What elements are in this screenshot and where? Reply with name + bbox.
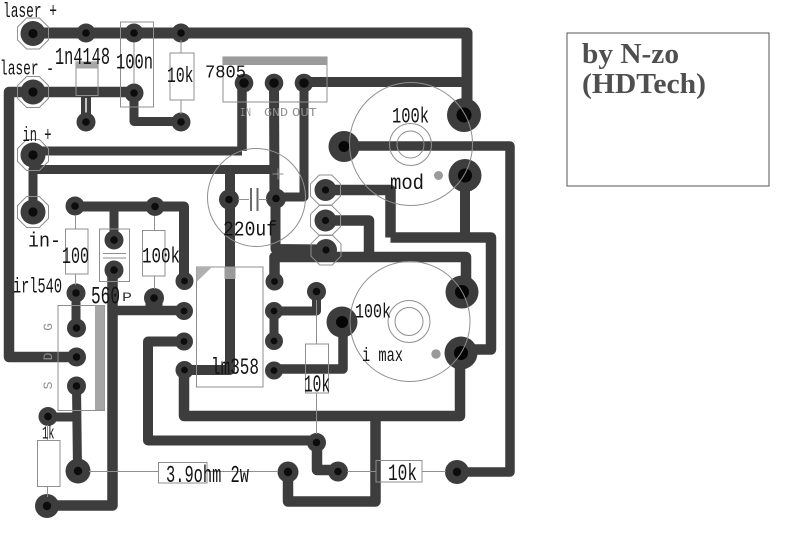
resistor 10kB body outline: [376, 461, 422, 483]
resistor 1k leads: [47, 425, 49, 441]
svg-text:100k: 100k: [392, 105, 429, 130]
pad 10k top: [172, 24, 191, 43]
resistor 3.9ohm body outline: [159, 463, 208, 484]
pad lm358 pin1L: [176, 272, 194, 290]
pad R100k top: [146, 197, 165, 216]
pad lm358 pin1R: [266, 273, 284, 291]
octagon laser+: [18, 18, 49, 49]
wire 7805 IN down to in+ line: [237, 83, 247, 151]
potentiometer mod circle outline: [350, 83, 473, 206]
pad R100 bottom: [67, 284, 86, 303]
pad 7805 OUT: [295, 74, 314, 93]
pad laser+: [21, 21, 46, 46]
resistor 100 leads: [75, 215, 77, 229]
resistor 3.9ohm leads: [89, 471, 159, 473]
wire 10kA bottom pad to left 10kB pad: [317, 442, 338, 470]
svg-text:100n: 100n: [116, 51, 153, 76]
regulator 7805 tab bar: [223, 57, 327, 65]
pad 1k bottom: [35, 494, 59, 518]
transistor irl540 tab bar: [95, 306, 105, 411]
pad 10kA top: [307, 282, 326, 301]
pad laser-: [21, 80, 46, 105]
capacitor 560p symbol lines: [103, 253, 126, 255]
svg-text:560: 560: [91, 283, 120, 312]
svg-text:100k: 100k: [355, 302, 391, 325]
svg-text:S: S: [41, 381, 56, 389]
pad 10kB left: [328, 462, 348, 482]
wire connector pin2 staircase down: [325, 221, 369, 258]
svg-text:10k: 10k: [167, 64, 194, 89]
svg-text:P: P: [122, 290, 132, 305]
svg-text:IN: IN: [240, 106, 251, 120]
op-amp lm358 notch overlay on trace: [225, 267, 236, 279]
svg-text:by N-zo: by N-zo: [582, 39, 679, 70]
pad imax pot wiper: [327, 307, 358, 338]
pad R100k bottom: [144, 288, 164, 308]
capacitor 220uf plate symbol: [250, 188, 259, 211]
wire branch to lm358 pin2L: [113, 306, 185, 316]
pad 220uf positive: [266, 189, 286, 209]
pad connector pin3: [315, 239, 337, 261]
svg-text:irl540: irl540: [13, 277, 62, 300]
wire lm358 pin3L left down right to 10kA bottom pad: [148, 342, 317, 441]
pad lm358 pin4L: [176, 361, 194, 379]
pad lm358 pin3R: [265, 332, 283, 350]
pad 560p bottom: [105, 261, 124, 280]
wire top +5V rail from laser+ to mod pot top-right pad: [33, 33, 467, 115]
author box: [567, 33, 769, 186]
wire R100 bottom pad to irl540 G pin: [72, 293, 81, 328]
wire 560p top pad stub: [110, 207, 119, 241]
octagon connector pin2: [311, 206, 341, 236]
wire y236 line right and down to imax bottom-right pad: [391, 238, 492, 350]
wire 7805 GND down to 220uf right pad: [269, 83, 280, 198]
svg-text:1n4148: 1n4148: [55, 45, 110, 72]
wire 7805 OUT down and left to 220uf right pad: [277, 83, 304, 197]
svg-text:1k: 1k: [42, 424, 55, 445]
pad connector pin2: [315, 210, 337, 232]
pad mod pot bottom-right: [449, 159, 482, 192]
wire node row y206: R100 top to R100k top to lm358 pin1L: [75, 207, 184, 282]
pad 100n bottom: [125, 84, 144, 103]
capacitor 220uf circle outline: [208, 149, 306, 247]
resistor 100k leads: [154, 216, 156, 231]
svg-text:OUT: OUT: [292, 106, 317, 120]
svg-text:(HDTech): (HDTech): [582, 69, 706, 100]
svg-text:lm358: lm358: [211, 355, 259, 381]
resistor 1k body outline: [38, 441, 61, 487]
pad R100 top: [66, 197, 85, 216]
svg-text:100k: 100k: [142, 245, 180, 270]
pad lm358 pin2L: [175, 302, 193, 320]
wire irl540 S pin down to pad near 3.9ohm: [77, 386, 78, 470]
capacitor 100n lead line: [133, 42, 135, 84]
wire 1k bottom pad right and up to 560p bottom / lm358 pin2L: [47, 271, 113, 506]
svg-text:3.9ohm 2w: 3.9ohm 2w: [166, 463, 249, 490]
resistor 10k top leads: [180, 40, 182, 53]
wire mod pot bottom-right pad down to y236 line: [460, 175, 470, 238]
capacitor 220uf plus mark: [273, 173, 284, 175]
pad 100n top: [125, 24, 144, 43]
potentiometer imax inner rings: [388, 301, 430, 343]
potentiometer mod inner rings: [390, 124, 432, 166]
wire bottom loop from 3.9ohm right pad up to y414 line: [288, 416, 376, 502]
pad imax pot top-right: [446, 276, 479, 309]
capacitor 100n body outline: [121, 22, 154, 107]
wire laser- left down to irl540 D pin: [9, 92, 134, 357]
svg-text:D: D: [41, 352, 56, 360]
wire 1n4148 stub split line: [85, 98, 87, 113]
svg-text:G: G: [41, 323, 56, 331]
pad lm358 pin4R: [265, 362, 283, 380]
resistor 10kA leads: [316, 300, 318, 344]
pad 1k top: [39, 407, 58, 426]
svg-text:laser +: laser +: [3, 1, 57, 24]
wire lm358 pin1R up, right along y257, down to imax top-right pad: [275, 257, 467, 292]
pad irl540 S: [67, 377, 86, 396]
pad 7805 IN: [235, 74, 254, 93]
pad 10k bottom: [172, 113, 191, 132]
wire 7805 OUT to +5V vertical: [304, 77, 466, 87]
wire in+ horizontal to 7805 IN: [33, 147, 242, 156]
capacitor 560p body outline: [100, 229, 130, 282]
wire in- up and right to 7805 GND vertical: [33, 170, 274, 213]
svg-text:10k: 10k: [388, 461, 417, 487]
wire 220uf right pad down to connector pin3: [276, 199, 327, 250]
octagon laser-: [18, 77, 49, 108]
pad 1n4148 bottom: [77, 113, 96, 132]
octagon connector pin3: [311, 235, 341, 265]
wire 1k top pad to S trace: [48, 413, 77, 422]
svg-text:i max: i max: [362, 345, 403, 367]
diode 1n4148 cathode band: [76, 62, 98, 69]
transistor irl540 body outline: [58, 306, 105, 411]
resistor 100 body outline: [66, 229, 89, 274]
pad lm358 pin2R: [265, 302, 283, 320]
svg-text:100: 100: [62, 244, 89, 270]
pad 1n4148 top: [77, 24, 96, 43]
wire 1n4148 junction stub to bottom pad: [81, 92, 91, 122]
octagon in-: [18, 197, 49, 228]
resistor 10kB leads: [347, 471, 376, 473]
resistor 10kA body outline: [306, 344, 329, 393]
pad imax pot bottom-right: [445, 337, 478, 370]
regulator 7805 body outline: [223, 57, 327, 102]
capacitor 220uf symbol lead: [238, 199, 249, 201]
pad mod pot wiper: [329, 131, 360, 162]
wire 220uf left pad vertical down to lm358 pin4L: [184, 170, 230, 371]
pad 3.9ohm left: [66, 459, 91, 484]
svg-text:in-: in-: [28, 231, 61, 254]
svg-text:7805: 7805: [205, 64, 246, 84]
diode 1n4148 body outline: [76, 62, 98, 96]
op-amp lm358 body outline: [197, 267, 264, 387]
wire connector pin1 staircase to y236 line: [325, 190, 391, 238]
pad lm358 pin3L: [175, 333, 193, 351]
pad in+: [21, 143, 46, 168]
pad mod pot top-right: [447, 98, 481, 132]
pad irl540 G: [67, 319, 86, 338]
pad 7805 GND: [265, 74, 284, 93]
pad irl540 D: [67, 348, 86, 367]
pad 10kA bottom: [307, 433, 326, 452]
pad 220uf negative: [219, 190, 239, 210]
wire 100n bottom pad down right to 10k bottom pad: [134, 93, 181, 122]
resistor 10k top body outline: [170, 53, 194, 100]
octagon connector pin1: [311, 175, 341, 205]
wire lm358 pin4R to imax wiper pad: [274, 322, 343, 369]
pad 3.9ohm right: [278, 462, 299, 483]
svg-text:GND: GND: [264, 106, 288, 120]
pad in-: [21, 200, 46, 225]
svg-text:in +: in +: [23, 125, 52, 148]
wire lm358 pin3R to pin2R to pad above 10kA: [274, 292, 317, 341]
op-amp lm358 notch triangle: [197, 267, 213, 282]
potentiometer imax index dot: [431, 349, 440, 358]
svg-text:10k: 10k: [304, 373, 330, 400]
wire mod wiper right, down right side, left to 10kB right pad: [344, 146, 510, 472]
pad 560p top: [105, 231, 124, 250]
svg-text:220uf: 220uf: [223, 220, 277, 243]
svg-text:laser -: laser -: [0, 59, 54, 82]
svg-text:mod: mod: [390, 173, 424, 196]
wire lm358 pin4L down, right, up to imax bottom-right pad: [184, 352, 460, 416]
pad connector pin1: [315, 179, 337, 201]
potentiometer mod index dot: [434, 171, 443, 180]
resistor 100k body outline: [143, 231, 166, 277]
octagon in+: [18, 140, 49, 171]
potentiometer imax circle outline: [350, 262, 470, 382]
pad 10kB right: [445, 460, 469, 484]
wire R100k bottom pad stub down: [146, 299, 163, 309]
